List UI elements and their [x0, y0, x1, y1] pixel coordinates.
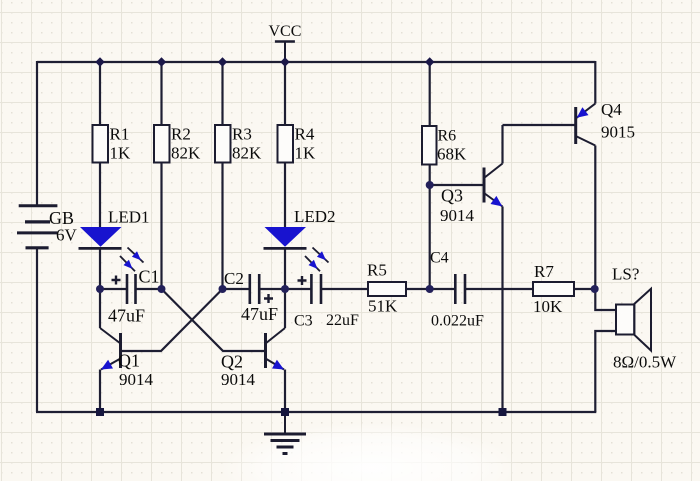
wire Q4 base	[503, 124, 576, 126]
junction node D	[426, 285, 434, 293]
svg-text:8Ω/0.5W: 8Ω/0.5W	[613, 353, 677, 372]
wire top bus corner to Q4 emitter	[594, 61, 596, 104]
junction node C	[281, 285, 289, 293]
wire R1 top	[99, 62, 101, 125]
svg-text:82K: 82K	[171, 144, 201, 163]
speaker LS	[612, 265, 677, 372]
wire C3 to R5	[321, 288, 368, 290]
wire LED2 cathode to node	[284, 249, 286, 290]
wire bottom bus	[36, 411, 596, 413]
wire C4 to R7	[465, 288, 533, 290]
svg-text:10K: 10K	[533, 297, 563, 316]
junction node B1	[158, 285, 166, 293]
svg-text:47uF: 47uF	[108, 306, 145, 326]
battery label GB 6V	[49, 208, 78, 245]
svg-text:1K: 1K	[295, 144, 317, 163]
wire node A to C1	[100, 288, 127, 290]
resistor R3	[215, 125, 262, 163]
svg-text:9014: 9014	[440, 206, 475, 225]
capacitor C3	[294, 274, 359, 330]
junction top bus R1	[95, 57, 104, 66]
junction top bus R3	[218, 57, 227, 66]
wire R4 to LED2	[284, 163, 286, 229]
wire R2 top	[160, 62, 162, 125]
wire node C to Q2 collector	[284, 289, 286, 328]
svg-text:51K: 51K	[368, 297, 398, 316]
wire LED1 cathode to node	[99, 249, 101, 290]
svg-text:C3: C3	[294, 313, 313, 330]
wire Q1 collector riser	[99, 289, 101, 328]
ground	[264, 412, 306, 454]
svg-text:22uF: 22uF	[326, 312, 359, 329]
svg-text:Q4: Q4	[601, 100, 622, 119]
junction bottom bus ground	[281, 408, 289, 416]
svg-text:LED1: LED1	[108, 208, 150, 227]
wire Q1 emitter to bottom bus	[99, 370, 101, 413]
junction node B2	[219, 285, 227, 293]
svg-text:LED2: LED2	[294, 207, 336, 226]
wire cross diagonal node B1 to Q2 base	[162, 289, 266, 351]
wire Q3 collector riser	[501, 125, 503, 164]
battery GB	[17, 206, 57, 248]
resistor R7	[533, 262, 574, 316]
wire C2 to node C	[259, 288, 285, 290]
svg-text:Q3: Q3	[441, 186, 463, 206]
wire node C to C3	[285, 288, 311, 290]
resistor R4	[278, 125, 317, 163]
svg-text:Q2: Q2	[221, 352, 243, 372]
wire left bus lower	[36, 249, 38, 413]
wire left bus upper	[36, 61, 38, 205]
wire R6 bottom to node D	[429, 165, 431, 290]
capacitor C1	[108, 267, 160, 326]
wire R7 to node E	[574, 288, 595, 290]
junction node A	[96, 285, 104, 293]
wire cross diagonal node B2 to Q1 base	[121, 289, 223, 351]
svg-text:82K: 82K	[232, 144, 262, 163]
svg-text:C4: C4	[430, 250, 449, 267]
VCC power symbol	[275, 42, 295, 63]
svg-text:VCC: VCC	[269, 23, 302, 40]
svg-text:6V: 6V	[56, 226, 78, 245]
junction top bus VCC R4	[280, 57, 289, 66]
wire speaker bottom to bottom bus	[595, 331, 616, 412]
svg-text:47uF: 47uF	[241, 304, 278, 324]
wire Q3 emitter to bottom bus	[501, 207, 503, 413]
resistor R6	[422, 126, 467, 165]
wire C1 to node B1	[136, 288, 162, 290]
svg-text:9014: 9014	[119, 370, 154, 389]
wire R3 to node B2	[221, 163, 223, 290]
capacitor C2	[224, 269, 278, 324]
transistor Q3	[440, 164, 503, 226]
svg-text:R1: R1	[110, 125, 130, 144]
LED1	[79, 227, 144, 271]
wire R6 top	[429, 62, 431, 126]
junction bottom bus Q3	[499, 408, 507, 416]
wire node E to speaker top	[595, 289, 616, 310]
svg-text:R6: R6	[438, 128, 457, 145]
svg-text:9014: 9014	[221, 370, 256, 389]
junction Q3 base at R6	[426, 181, 434, 189]
resistor R1	[93, 125, 132, 163]
svg-text:1K: 1K	[110, 144, 132, 163]
svg-text:C2: C2	[224, 269, 244, 288]
wire node B2 to C2	[223, 288, 250, 290]
svg-text:R2: R2	[171, 125, 191, 144]
LED2	[264, 227, 329, 271]
wire R3 top	[221, 62, 223, 125]
wire top bus	[37, 61, 595, 63]
junction top bus R6	[425, 57, 434, 66]
wire R1 to LED1	[99, 163, 101, 229]
resistor R2	[154, 125, 201, 163]
transistor Q1	[100, 328, 154, 389]
svg-text:Q1: Q1	[118, 351, 140, 371]
transistor Q4	[576, 100, 635, 146]
junction top bus R2	[157, 57, 166, 66]
wire R4 top	[284, 62, 286, 125]
junction bottom bus Q1	[96, 408, 104, 416]
capacitor C4	[430, 250, 484, 330]
svg-text:9015: 9015	[601, 123, 635, 142]
junction node E	[591, 285, 599, 293]
wire R5 to node D	[406, 288, 430, 290]
wire R2 to node B1	[160, 163, 162, 290]
svg-text:R3: R3	[232, 125, 252, 144]
svg-text:R7: R7	[534, 262, 554, 281]
transistor Q2	[221, 328, 285, 389]
svg-text:R4: R4	[295, 125, 315, 144]
svg-text:LS?: LS?	[612, 265, 639, 284]
resistor R5	[367, 261, 406, 316]
wire Q3 base	[430, 184, 484, 186]
wire node D to C4	[430, 288, 456, 290]
svg-text:C1: C1	[139, 267, 160, 287]
svg-text:68K: 68K	[437, 145, 467, 164]
svg-text:0.022uF: 0.022uF	[431, 313, 484, 330]
wire Q4 collector to node E	[594, 146, 596, 290]
svg-text:R5: R5	[367, 261, 387, 280]
wire Q2 emitter to bottom bus	[284, 370, 286, 413]
